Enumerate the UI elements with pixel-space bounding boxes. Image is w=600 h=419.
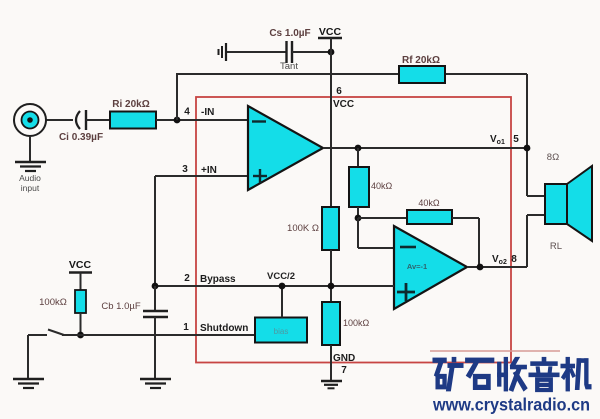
wire: speaker bottom feed xyxy=(527,215,545,267)
wire: right drop to Vo1 xyxy=(526,74,528,196)
resistor Ri xyxy=(110,112,156,129)
speaker RL xyxy=(545,166,592,241)
node switch junction xyxy=(77,332,84,339)
wire: gnd to Cs xyxy=(227,51,286,53)
node op1 out / 40k tap xyxy=(355,145,362,152)
label GND xyxy=(333,353,355,364)
pin 2 label xyxy=(184,273,190,284)
label 40k vertical value xyxy=(371,181,393,191)
svg-text:2: 2 xyxy=(184,273,190,284)
resistor 40k horizontal xyxy=(407,210,452,224)
svg-text:40kΩ: 40kΩ xyxy=(371,181,393,191)
svg-text:VCC: VCC xyxy=(333,99,354,110)
svg-text:Av=-1: Av=-1 xyxy=(407,262,427,271)
wire: VCC to 100k xyxy=(80,273,82,291)
svg-text:7: 7 xyxy=(341,365,347,376)
op-amp U1A xyxy=(248,106,323,190)
svg-text:VCC/2: VCC/2 xyxy=(267,271,295,282)
label Cs value xyxy=(269,28,310,39)
node -IN junction xyxy=(174,117,181,124)
label Ci value xyxy=(59,132,103,143)
wire: bias to bypass xyxy=(281,286,283,318)
pin 3 label xyxy=(182,164,188,175)
wire: inverter -IN link xyxy=(358,218,394,248)
wire: jack to ground xyxy=(29,136,31,162)
input jack J1 xyxy=(14,104,46,136)
char kuang xyxy=(433,358,463,391)
wire: divider mid xyxy=(330,250,332,302)
label Audio input xyxy=(19,173,41,193)
wire: +IN down to bypass xyxy=(154,176,156,286)
pin 1 Shutdown name xyxy=(200,323,248,334)
pin 4 -IN name xyxy=(201,107,214,118)
wire ghost artifact line xyxy=(430,350,560,352)
svg-text:100K Ω: 100K Ω xyxy=(287,223,319,234)
wire: Cb to ground xyxy=(154,317,156,379)
ground (pin7) xyxy=(321,381,342,388)
label Tant xyxy=(280,61,298,72)
svg-text:8Ω: 8Ω xyxy=(547,152,559,163)
svg-text:bias: bias xyxy=(274,327,289,336)
char shi xyxy=(466,358,494,389)
pin 6 label xyxy=(336,86,342,97)
node 40k junction xyxy=(355,215,362,222)
ground (top left of Cs) xyxy=(219,43,227,61)
op-amp U1B xyxy=(394,226,467,309)
svg-text:6: 6 xyxy=(336,86,342,97)
node Vo1 xyxy=(524,145,531,152)
char yin xyxy=(529,358,559,392)
bias box xyxy=(255,318,307,343)
watermark url xyxy=(432,395,590,415)
svg-text:100kΩ: 100kΩ xyxy=(39,297,67,308)
wire: op-amp1 output Vo1 xyxy=(323,147,527,149)
svg-text:3: 3 xyxy=(182,164,188,175)
svg-text:Bypass: Bypass xyxy=(200,274,236,285)
node bias tap xyxy=(279,283,286,290)
pin 5 label xyxy=(513,134,519,145)
wire: op-amp2 output Vo2 xyxy=(467,266,527,268)
ground (switch) xyxy=(13,379,44,388)
label 8 ohm xyxy=(547,152,559,163)
wire: feedback riser xyxy=(176,74,178,120)
pin 2 Bypass name xyxy=(200,274,236,285)
svg-text:Ri 20kΩ: Ri 20kΩ xyxy=(112,99,149,110)
svg-text:input: input xyxy=(21,183,40,193)
ground (Cb) xyxy=(140,379,171,388)
pin 8 label xyxy=(511,254,517,265)
wire: switch to ground xyxy=(27,335,29,379)
wire: 40k branch top xyxy=(357,148,359,167)
label Av=-1 xyxy=(407,262,427,271)
label Vo2 xyxy=(492,254,507,266)
label Vo1 xyxy=(490,134,505,146)
svg-text:Rf 20kΩ: Rf 20kΩ xyxy=(402,55,440,66)
svg-text:VCC: VCC xyxy=(69,259,92,271)
label 100k pull-up value xyxy=(39,297,67,308)
pin 1 label xyxy=(183,322,189,333)
label Ri value xyxy=(112,99,149,110)
wire: jack to Ci xyxy=(46,119,73,121)
svg-text:Cb 1.0µF: Cb 1.0µF xyxy=(101,301,140,312)
label Cb value xyxy=(101,301,140,312)
pin 4 label xyxy=(184,107,190,118)
label 100K value xyxy=(287,223,319,234)
watermark logo text xyxy=(433,358,591,392)
svg-text:VCC: VCC xyxy=(319,26,342,38)
svg-text:www.crystalradio.cn: www.crystalradio.cn xyxy=(432,395,590,415)
node bypass/Cb xyxy=(152,283,159,290)
wire: feedback top run xyxy=(176,73,527,75)
wire: Ci to Ri xyxy=(86,119,110,121)
svg-text:5: 5 xyxy=(513,134,519,145)
svg-text:100kΩ: 100kΩ xyxy=(343,318,370,328)
label 40k horizontal value xyxy=(418,198,440,208)
wire: bypass run xyxy=(155,285,394,287)
wire: Cs to VCC node xyxy=(292,51,331,53)
VCC rail symbol left xyxy=(69,259,92,273)
IC boundary red box xyxy=(196,97,511,363)
switch S1 xyxy=(28,330,81,336)
capacitor Cs xyxy=(287,41,293,63)
wire: Cb drop xyxy=(154,286,156,310)
VCC rail symbol top xyxy=(318,26,342,38)
svg-text:40kΩ: 40kΩ xyxy=(418,198,440,208)
resistor 100k lower divider xyxy=(322,302,340,345)
wire: 100k to switch node xyxy=(80,313,82,335)
node Vo2 xyxy=(477,264,484,271)
svg-text:4: 4 xyxy=(184,107,190,118)
pin 6 VCC name xyxy=(333,99,354,110)
capacitor Ci xyxy=(76,110,86,130)
pin 3 +IN name xyxy=(201,165,217,176)
node VCC junction xyxy=(328,49,335,56)
svg-text:1: 1 xyxy=(183,322,189,333)
svg-text:RL: RL xyxy=(550,241,562,252)
svg-text:Shutdown: Shutdown xyxy=(200,323,248,334)
resistor Rf xyxy=(399,66,445,83)
svg-text:Tant: Tant xyxy=(280,61,298,72)
svg-text:GND: GND xyxy=(333,353,355,364)
pin 7 label xyxy=(341,365,347,376)
label Rf value xyxy=(402,55,440,66)
svg-text:Ci 0.39µF: Ci 0.39µF xyxy=(59,132,103,143)
svg-text:Cs 1.0µF: Cs 1.0µF xyxy=(269,28,310,39)
svg-text:Audio: Audio xyxy=(19,173,41,183)
wire: to GND pin 7 xyxy=(330,345,332,381)
label RL xyxy=(550,241,562,252)
wire: +IN input xyxy=(155,175,248,177)
label 100k lower value xyxy=(343,318,370,328)
wire: 40k bottom to junction xyxy=(357,207,359,218)
node divider tap xyxy=(328,283,335,290)
wire: junction to 40k horizontal xyxy=(358,217,407,219)
wire: Ri to op-amp -IN (pin 4) xyxy=(156,119,248,121)
capacitor Cb xyxy=(143,311,168,317)
char ji xyxy=(561,358,591,391)
wire: shutdown run xyxy=(81,334,256,336)
char shou xyxy=(498,358,527,392)
wire: VCC vertical rail xyxy=(330,38,332,207)
label VCC/2 xyxy=(267,271,295,282)
ground (audio input) xyxy=(15,162,46,171)
wire: speaker top feed xyxy=(527,195,545,197)
svg-text:+IN: +IN xyxy=(201,165,217,176)
svg-text:-IN: -IN xyxy=(201,107,214,118)
resistor 100k upper divider xyxy=(322,207,339,250)
resistor 100k pull-up xyxy=(75,290,86,313)
wire: 40k to Vo2 drop xyxy=(452,218,479,267)
resistor 40k vertical xyxy=(349,167,369,207)
svg-text:8: 8 xyxy=(511,254,517,265)
